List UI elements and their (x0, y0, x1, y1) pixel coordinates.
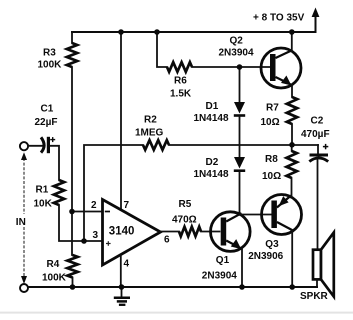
svg-text:1N4148: 1N4148 (194, 169, 229, 180)
label pin 4 (124, 259, 130, 270)
resistor R4 100K (42, 255, 78, 287)
svg-text:D1: D1 (206, 101, 219, 112)
svg-text:R6: R6 (174, 76, 187, 87)
svg-text:1N4148: 1N4148 (194, 113, 229, 124)
svg-text:+ 8 TO 35V: + 8 TO 35V (253, 13, 305, 24)
wire D1 to D2 (239, 117, 241, 157)
wire Q2 emitter to R7 (291, 85, 293, 97)
svg-text:2N3906: 2N3906 (248, 251, 283, 262)
wire Q1 emitter to rail (241, 249, 243, 287)
svg-text:C2: C2 (311, 116, 324, 127)
resistor R7 10ohm (261, 97, 298, 145)
resistor R2 1MEG feedback line (84, 115, 318, 242)
resistor R6 1.5K (157, 32, 270, 100)
scan band (decorative) (0, 312, 353, 314)
wire Q2 collector to rail (291, 32, 293, 51)
node IN upper terminal (20, 142, 28, 150)
label pin 3 (93, 230, 99, 241)
svg-text:R7: R7 (266, 102, 279, 113)
svg-text:2N3904: 2N3904 (202, 271, 237, 282)
svg-text:1.5K: 1.5K (170, 89, 192, 100)
svg-text:IN: IN (16, 217, 26, 228)
svg-text:R4: R4 (47, 259, 60, 270)
svg-text:3: 3 (93, 230, 99, 241)
wire IN port line with arrows (21, 152, 27, 284)
svg-text:R1: R1 (36, 185, 49, 196)
wire Q3 collector to rail (291, 230, 293, 287)
wire D2 to Q1 collector (239, 172, 241, 214)
wire ground bottom rail (28, 286, 317, 288)
svg-text:2N3904: 2N3904 (219, 48, 254, 59)
svg-text:470Ω: 470Ω (172, 215, 197, 226)
diode D1 1N4148 (194, 67, 246, 124)
svg-text:10Ω: 10Ω (261, 117, 280, 128)
svg-text:R3: R3 (43, 48, 56, 59)
power supply arrow +8 TO 35V (253, 8, 319, 33)
svg-text:22µF: 22µF (35, 117, 58, 128)
svg-text:470µF: 470µF (301, 129, 330, 140)
op-amp U1 3140 (103, 200, 161, 266)
svg-text:3140: 3140 (109, 226, 135, 238)
svg-text:100K: 100K (42, 273, 67, 284)
transistor Q2 2N3904 (219, 36, 302, 89)
svg-text:2: 2 (91, 200, 97, 211)
label IN (14, 214, 31, 228)
label pin 6 (164, 235, 170, 246)
label pin 7 (124, 200, 130, 211)
svg-text:7: 7 (124, 200, 130, 211)
transistor Q3 2N3906 (248, 195, 301, 263)
svg-text:100K: 100K (38, 60, 63, 71)
svg-text:Q1: Q1 (216, 255, 230, 266)
wire pin4 to ground rail (120, 255, 122, 287)
capacitor C2 470uF (301, 116, 330, 162)
speaker SPKR (300, 233, 334, 303)
wire C2 to speaker (317, 160, 319, 251)
svg-text:1MEG: 1MEG (135, 128, 164, 139)
resistor R5 470ohm (159, 199, 220, 237)
transistor Q1 2N3904 (202, 212, 250, 282)
capacitor C1 22uF (28, 104, 57, 154)
wire V+ top rail (72, 31, 316, 33)
label pin 2 (91, 200, 97, 211)
svg-text:6: 6 (164, 235, 170, 246)
svg-text:Q2: Q2 (230, 36, 244, 47)
resistor R1 10K (34, 146, 65, 210)
wire pin2 input (72, 211, 103, 213)
svg-text:4: 4 (124, 259, 130, 270)
wire Q1 collector to Q3 base (241, 214, 272, 216)
ground symbol (114, 287, 130, 305)
svg-text:Q3: Q3 (265, 239, 279, 250)
svg-text:10Ω: 10Ω (262, 171, 281, 182)
wire Q3 emitter to R8 (291, 178, 293, 196)
svg-text:SPKR: SPKR (300, 291, 329, 302)
node IN lower terminal (20, 284, 28, 292)
wire R1 bottom to pin3 line (59, 205, 103, 241)
svg-text:C1: C1 (41, 104, 54, 115)
svg-text:R5: R5 (179, 199, 192, 210)
wire R3 bottom to node pin2 to R4 (71, 67, 73, 255)
svg-text:R8: R8 (265, 154, 278, 165)
wire pin7 supply (120, 32, 122, 210)
svg-text:D2: D2 (206, 157, 219, 168)
diode D2 1N4148 (194, 157, 246, 180)
resistor R3 100K (38, 32, 78, 71)
svg-text:R2: R2 (144, 115, 157, 126)
resistor R8 10ohm (262, 145, 297, 182)
svg-text:10K: 10K (34, 199, 53, 210)
